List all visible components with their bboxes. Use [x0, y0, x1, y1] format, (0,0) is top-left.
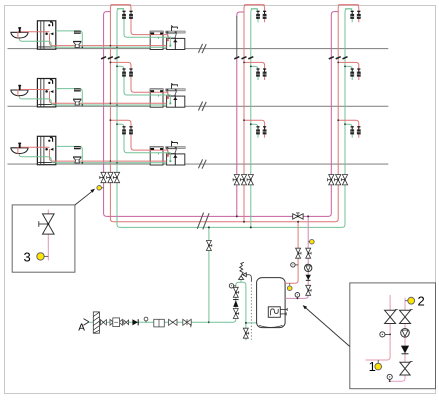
riser shutoff valves below floor 3, right group — [328, 175, 334, 185]
detail 2 circulation valve lower — [400, 361, 413, 375]
detail 3 pipe — [47, 210, 49, 261]
drain valve below cold feed node — [243, 328, 248, 338]
storage water heater tank — [257, 278, 286, 328]
detail 2 thermometer hot — [380, 332, 391, 337]
service valve 3 — [169, 319, 177, 325]
cold water supply drop from main — [208, 227, 210, 322]
floor slab line 1 — [8, 48, 389, 50]
detail box 3 frame — [12, 205, 75, 272]
valve on cold supply drop — [206, 241, 211, 251]
heat exchanger coil — [268, 307, 280, 318]
break symbol on mains bundle — [197, 213, 209, 230]
detail 2 hot valve — [385, 310, 398, 324]
floor slab line 2 — [8, 105, 389, 107]
pressure gauge service — [144, 317, 148, 322]
break symbol on floor line 2 — [198, 102, 206, 111]
cold water riser+main green (left riser, bottom main, right riser) — [117, 9, 352, 228]
hot water riser+main red (left riser, bottom main, right riser) — [110, 5, 358, 222]
detail 2 thermometer circulation — [387, 374, 392, 382]
floor slab line 3 — [8, 163, 389, 165]
water meter — [110, 318, 122, 327]
balancing sensor yellow circle on left circulation riser — [97, 186, 104, 191]
detail box 2 frame — [350, 283, 436, 389]
temperature sensor yellow circulation — [308, 239, 314, 244]
heater cold feed column with safety group — [209, 282, 257, 340]
svg-text:2: 2 — [418, 294, 425, 309]
detail 2 hot pipe — [366, 295, 391, 360]
inline valve on circulation main — [293, 213, 303, 219]
apartment floor 2 (fixtures and branch piping) — [11, 62, 361, 107]
cold water riser green middle — [251, 9, 258, 228]
break symbol on floor line 1 — [198, 44, 206, 53]
leader from box 3 — [75, 189, 95, 205]
circulation riser+main magenta (left riser, bottom main, right riser) — [104, 12, 339, 217]
circulation riser magenta middle, top corner — [237, 12, 244, 17]
entry marker A — [78, 319, 89, 334]
pressure gauge cold feed — [229, 284, 236, 288]
detail 3 balancing valve — [39, 214, 54, 234]
circulation pump — [305, 264, 312, 271]
circulation riser middle grey segment — [236, 16, 238, 58]
circulation riser magenta middle lower — [236, 58, 238, 217]
check valve circulation — [306, 275, 311, 281]
apartment floor 3 (fixtures and branch piping) — [11, 120, 361, 165]
junction dots middle risers to mains — [236, 215, 252, 228]
detail 2 sensor yellow 1 — [375, 360, 382, 370]
safety valve — [239, 262, 247, 282]
detail 3 sensor yellow — [37, 253, 49, 260]
hot outlet pipe tank to main — [285, 222, 298, 283]
valve cold feed lower — [233, 309, 238, 319]
temperature sensor yellow hot outlet — [287, 283, 292, 290]
service valve 4 with drain — [183, 319, 191, 327]
cold water service pipe — [89, 321, 209, 323]
hot water riser red middle — [244, 5, 265, 222]
riser penetration slashes below floor 1 — [101, 57, 347, 59]
wall penetration — [93, 312, 99, 333]
pressure reducer device — [154, 319, 165, 327]
circulation return pipe main to tank — [285, 216, 308, 298]
node cold supply bottom — [208, 321, 210, 323]
svg-text:1: 1 — [369, 359, 376, 374]
valve circulation upper — [306, 248, 311, 258]
thermometer hot outlet — [291, 263, 298, 267]
detail 2 sensor yellow 2 — [405, 297, 415, 304]
detail 2 check valve — [401, 346, 409, 354]
node cold supply top — [208, 226, 210, 228]
safety valve discharge to drain — [246, 275, 251, 281]
heating medium stubs — [280, 308, 287, 316]
node circulation to main — [307, 215, 309, 217]
svg-text:3: 3 — [24, 250, 31, 265]
valve cold feed upper — [233, 287, 238, 297]
detail 2 circulation valve upper — [400, 310, 413, 324]
service valve 1 — [100, 320, 106, 325]
node hot outlet to main — [297, 221, 299, 223]
riser shutoff valves below floor 3, middle group — [233, 175, 239, 185]
drain pipe dotted — [250, 281, 252, 341]
check valve cold feed — [233, 300, 239, 307]
service valve 2 — [124, 320, 129, 325]
node cold feed — [245, 322, 247, 324]
valve hot outlet — [296, 248, 301, 258]
leader from box 2 — [303, 305, 350, 346]
apartment floor 1 (fixtures and branch piping) — [11, 5, 361, 50]
thermometer circulation — [295, 293, 300, 300]
floor 2 branch tee dots — [110, 62, 346, 68]
valve circulation lower — [306, 285, 311, 295]
detail 2 circulation pipe — [390, 298, 405, 381]
riser shutoff valves below floor 3, left group — [100, 172, 106, 182]
check valve service — [132, 319, 138, 325]
detail 2 circulation pump — [401, 329, 410, 338]
floor 3 branch tee dots — [110, 119, 346, 125]
break symbol on floor line 3 — [198, 159, 206, 168]
svg-text:A: A — [78, 322, 85, 333]
